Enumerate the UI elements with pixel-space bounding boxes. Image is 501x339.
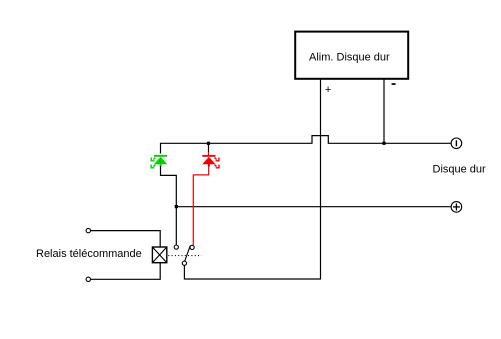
terminal circle plus output <box>451 202 462 213</box>
relay coil K1 <box>152 247 166 263</box>
wire red LED return down to switch contact (red) <box>193 166 208 245</box>
LED D2 red <box>202 143 219 168</box>
wire + lead from supply down to switch common <box>184 80 320 280</box>
junction node at red LED top <box>207 142 210 145</box>
LED D1 green <box>151 156 167 168</box>
switch S1 contact right (red branch) <box>190 245 194 249</box>
svg-text:Relais télécommande: Relais télécommande <box>36 248 142 260</box>
junction node at - lead <box>382 142 385 145</box>
wire relay bottom feed <box>91 263 161 280</box>
relay input terminal bottom <box>86 277 90 281</box>
switch S1 common pivot <box>182 261 186 265</box>
switch S1 actuation dotted link <box>168 255 201 257</box>
svg-text:Alim. Disque dur: Alim. Disque dur <box>309 52 390 64</box>
wire - lead from supply down to top rail <box>383 80 385 144</box>
svg-text:Disque dur: Disque dur <box>433 164 487 176</box>
wire top rail with hop over + lead <box>161 136 451 154</box>
wire relay top feed <box>91 231 161 247</box>
power supply box Alim. Disque dur <box>295 32 408 79</box>
junction node on second rail <box>175 205 178 208</box>
label - <box>392 83 396 85</box>
relay input terminal top <box>86 228 90 232</box>
switch S1 contact left (green branch) <box>174 245 178 249</box>
wire second rail to + terminal <box>176 206 451 208</box>
switch S1 lever <box>185 246 191 262</box>
svg-text:+: + <box>325 84 331 96</box>
terminal circle with bar (minus output) <box>451 138 462 149</box>
wire green LED cathode return down to switch contact <box>161 166 177 245</box>
